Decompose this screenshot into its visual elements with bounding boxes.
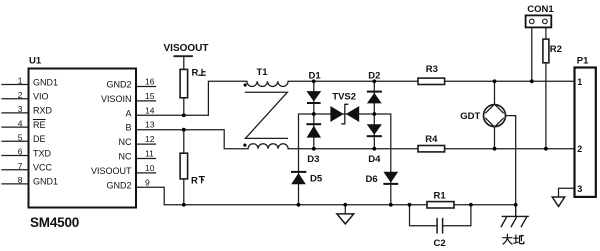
svg-text:D2: D2: [368, 70, 380, 81]
svg-text:6: 6: [18, 147, 23, 157]
svg-text:VISOIN: VISOIN: [101, 94, 132, 104]
svg-text:D3: D3: [307, 154, 319, 165]
svg-text:2: 2: [577, 144, 582, 154]
svg-text:12: 12: [145, 134, 155, 144]
svg-text:DE: DE: [33, 134, 46, 144]
svg-text:R: R: [191, 175, 198, 186]
svg-text:NC: NC: [119, 137, 132, 147]
svg-text:GND1: GND1: [33, 77, 58, 87]
svg-text:VIO: VIO: [33, 92, 49, 102]
svg-text:8: 8: [18, 175, 23, 185]
svg-text:D1: D1: [309, 70, 322, 81]
svg-text:GND1: GND1: [33, 177, 58, 187]
svg-text:2: 2: [18, 90, 23, 100]
svg-text:U1: U1: [29, 55, 42, 66]
svg-text:VISOOUT: VISOOUT: [164, 43, 209, 54]
svg-text:3: 3: [577, 184, 582, 194]
svg-text:R4: R4: [425, 134, 438, 145]
svg-text:1: 1: [18, 76, 23, 86]
svg-text:10: 10: [145, 163, 155, 173]
svg-text:4: 4: [18, 118, 23, 128]
svg-text:VISOOUT: VISOOUT: [91, 166, 132, 176]
svg-text:CON1: CON1: [527, 4, 554, 15]
svg-text:11: 11: [145, 149, 154, 159]
svg-text:1: 1: [577, 77, 582, 87]
svg-text:TVS2: TVS2: [332, 91, 356, 102]
svg-text:5: 5: [18, 133, 23, 143]
svg-text:R3: R3: [426, 64, 438, 75]
svg-text:A: A: [125, 108, 131, 118]
svg-text:3: 3: [18, 104, 23, 114]
svg-text:GND2: GND2: [106, 180, 131, 190]
svg-text:15: 15: [145, 91, 155, 101]
svg-text:D6: D6: [366, 174, 378, 185]
svg-text:R2: R2: [550, 44, 562, 55]
svg-text:SM4500: SM4500: [30, 215, 79, 230]
svg-text:7: 7: [18, 161, 23, 171]
svg-text:GND2: GND2: [106, 80, 131, 90]
svg-text:B: B: [125, 123, 131, 133]
svg-text:TXD: TXD: [33, 148, 52, 158]
svg-text:P1: P1: [577, 56, 589, 67]
svg-text:RE: RE: [33, 120, 46, 130]
svg-text:14: 14: [145, 105, 155, 115]
svg-text:VCC: VCC: [33, 163, 53, 173]
svg-text:GDT: GDT: [460, 111, 480, 122]
svg-text:D4: D4: [368, 154, 381, 165]
svg-text:R1: R1: [434, 190, 447, 201]
svg-text:16: 16: [145, 77, 155, 87]
svg-text:13: 13: [145, 120, 155, 130]
svg-text:D5: D5: [310, 174, 323, 185]
svg-text:NC: NC: [119, 152, 132, 162]
svg-text:C2: C2: [434, 238, 446, 249]
svg-text:T1: T1: [257, 67, 269, 78]
svg-text:RXD: RXD: [33, 106, 53, 116]
svg-text:R: R: [192, 68, 199, 79]
svg-text:9: 9: [145, 177, 150, 187]
